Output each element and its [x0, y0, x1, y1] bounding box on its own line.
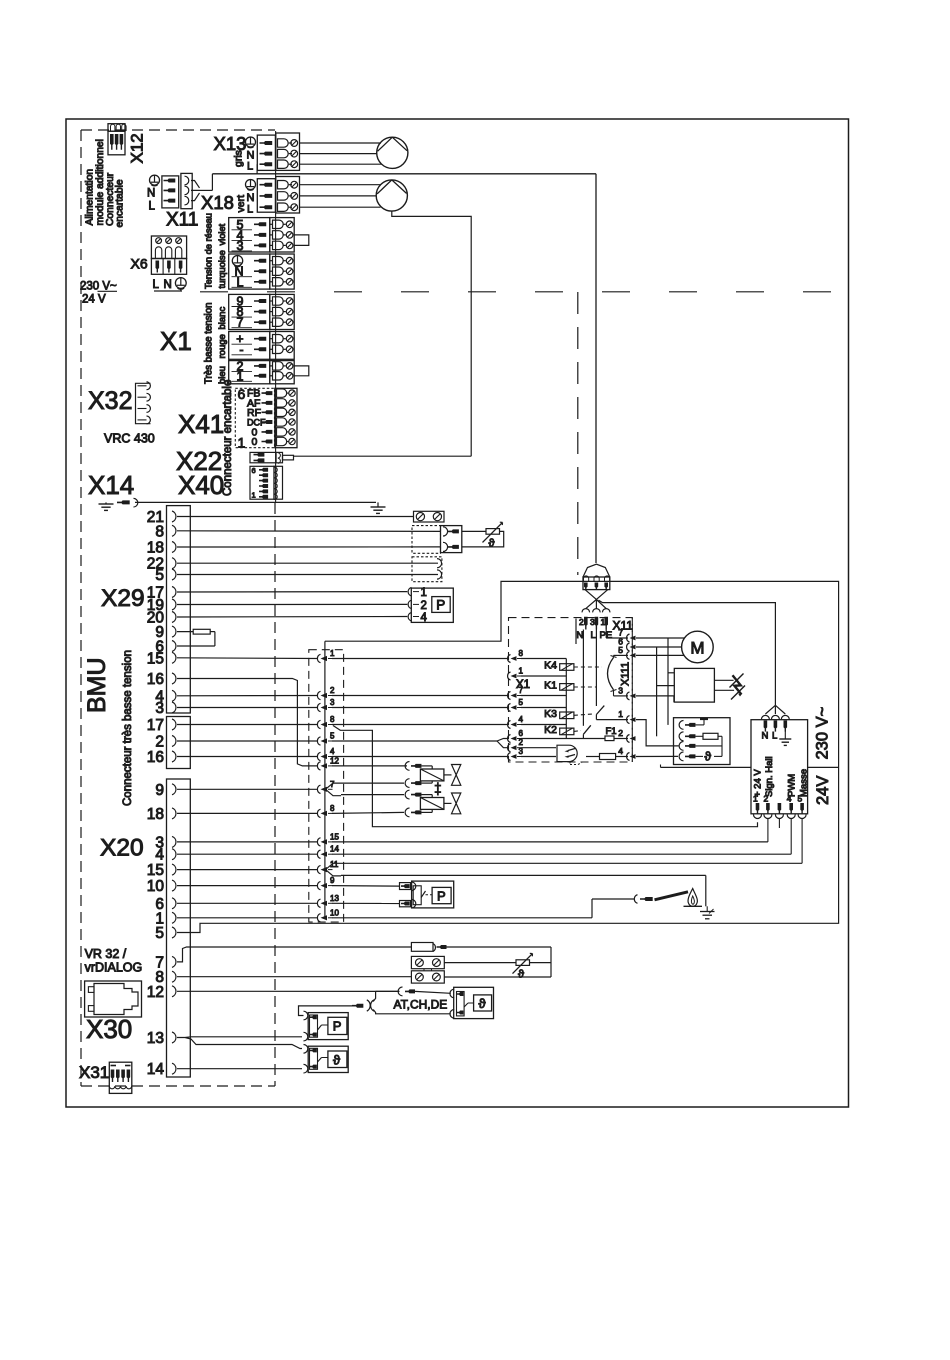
svg-text:ϑ: ϑ [518, 969, 524, 981]
connector X13 blades [257, 135, 275, 170]
svg-text:turquoise: turquoise [217, 250, 227, 288]
svg-text:4: 4 [421, 612, 428, 624]
X18 earth symbol [246, 180, 256, 190]
svg-text:8: 8 [330, 804, 335, 813]
wire X111-7 to fan [636, 637, 685, 639]
mech link K3 [574, 714, 593, 715]
wire L to X111 pin1 [596, 719, 628, 721]
X1 strip centerline [275, 131, 277, 503]
wire X20-9 [177, 788, 318, 790]
svg-text:X11: X11 [613, 619, 634, 633]
svg-text:4: 4 [330, 747, 335, 756]
wire X29-8 [177, 530, 441, 533]
svg-text:17: 17 [147, 717, 164, 734]
svg-text:1: 1 [618, 709, 623, 719]
svg-text:12: 12 [330, 756, 339, 765]
wire X20-10 [177, 885, 318, 887]
wire X20-14 [177, 1068, 302, 1070]
svg-text:Alimentation: Alimentation [85, 169, 96, 226]
thermistor flow [444, 962, 516, 964]
svg-text:L: L [153, 279, 160, 291]
svg-text:6: 6 [252, 466, 256, 475]
svg-text:blanc: blanc [217, 307, 228, 330]
wire P3 top loop [299, 1006, 353, 1016]
riser to igniter lower [656, 647, 658, 736]
plug into splitter [352, 1004, 363, 1008]
wire X20-18 [177, 812, 318, 814]
connector X41 [235, 388, 274, 447]
harness connector spine [324, 641, 326, 918]
boiler harness connector dashed box [309, 650, 344, 922]
svg-text:1: 1 [601, 617, 606, 627]
svg-text:2: 2 [330, 686, 335, 695]
svg-text:L: L [247, 161, 253, 173]
svg-text:2: 2 [421, 600, 427, 612]
sensor theta [696, 755, 704, 757]
svg-text:1: 1 [519, 667, 524, 676]
wire X20-15 [177, 869, 318, 871]
wire X20-13 split [177, 1037, 302, 1049]
harness connector pins [321, 656, 328, 661]
mech link K1 [574, 686, 597, 688]
svg-text:K2: K2 [544, 724, 557, 736]
diagram outer border frame [66, 119, 849, 1107]
wire X29-17 [177, 591, 407, 593]
svg-text:P: P [436, 598, 445, 613]
wire X20-8 [177, 976, 411, 978]
pump 1 [377, 137, 408, 168]
ignition transformer box [674, 668, 714, 702]
wire X111-4 to sensor [636, 755, 678, 757]
pump 2 [376, 180, 407, 211]
svg-text:Tension de réseau: Tension de réseau [204, 213, 214, 289]
svg-text:gris: gris [233, 150, 245, 167]
screw block upper [411, 956, 444, 968]
svg-text:X20: X20 [100, 835, 144, 862]
spark bolt [733, 675, 742, 694]
svg-text:1: 1 [753, 794, 758, 804]
connector X22 [250, 452, 276, 462]
svg-text:VRC 430: VRC 430 [104, 432, 155, 446]
svg-text:15: 15 [330, 832, 339, 841]
relay K1 [560, 684, 574, 691]
connector X18 blades [257, 179, 275, 213]
splitter branches [373, 991, 375, 1001]
wire PWM [790, 819, 792, 855]
svg-text:K1: K1 [544, 680, 557, 692]
jumper link terminals 4-3 [294, 235, 309, 246]
sensor internal resistor [696, 735, 704, 737]
wire X20-7 jog [177, 947, 411, 962]
relay coil bus [565, 659, 567, 739]
wire X29-19 [177, 603, 407, 605]
svg-text:14: 14 [147, 1061, 165, 1078]
wire X111 pin5 to contact [614, 654, 629, 656]
wire X20-5 loop [177, 581, 839, 932]
svg-text:violet: violet [217, 223, 227, 245]
connector X12 [108, 124, 125, 132]
connector X31 [109, 1062, 132, 1093]
flame base [684, 905, 703, 907]
svg-text:16: 16 [147, 749, 164, 766]
water pressure sensor P2 [412, 881, 454, 908]
chevron splitter pin11 [326, 863, 342, 876]
screw block lower [411, 971, 444, 983]
svg-text:X18: X18 [201, 192, 234, 213]
svg-text:+: + [435, 787, 442, 799]
fan motor M [682, 631, 714, 663]
flame earth [700, 911, 715, 913]
svg-text:4: 4 [618, 746, 623, 756]
X13 earth symbol [246, 137, 256, 147]
svg-text:2: 2 [579, 617, 584, 627]
wire X29-17b [177, 724, 318, 726]
wire X29-16b [177, 756, 318, 758]
wire PE to X111 pin7 [605, 630, 607, 639]
sensor block contacts [679, 721, 683, 730]
wire pin3 to relaybox [332, 707, 509, 709]
jumper link terminals 2-1 [294, 366, 309, 376]
24V interface box [751, 720, 808, 814]
230V plug V-split [765, 705, 785, 714]
wire Masse branch [801, 819, 803, 864]
svg-text:1: 1 [330, 649, 335, 658]
contact K3 [596, 706, 604, 715]
temperature sensor block [304, 1045, 308, 1054]
terminal block X1 rows 2-1 [229, 361, 270, 384]
connector X111 pins [627, 634, 630, 642]
svg-text:X41: X41 [178, 409, 224, 439]
chevron splitter pin7 [326, 783, 342, 796]
svg-text:8: 8 [330, 715, 335, 724]
X111 dashed spine [631, 618, 633, 762]
wire X29-16 jog to pin12 [177, 679, 318, 766]
thermistor loop return [444, 976, 551, 978]
svg-text:2: 2 [519, 738, 524, 747]
ignition electrode leads [714, 679, 733, 681]
X11 merge wire to rail [191, 181, 200, 201]
svg-text:8: 8 [155, 523, 164, 540]
svg-text:X6: X6 [131, 256, 148, 272]
wire X20-1 [177, 917, 318, 919]
wire X111-3 to igniter [636, 695, 674, 697]
wire pin13 to P2 [332, 902, 400, 904]
choke filter plug [583, 564, 610, 577]
wire pin7a to valve1 [341, 782, 404, 784]
svg-text:2: 2 [764, 794, 769, 804]
svg-text:F1: F1 [606, 726, 617, 737]
svg-text:X1: X1 [516, 679, 530, 691]
spark gap electrodes [730, 674, 744, 688]
svg-text:M: M [690, 639, 704, 658]
wire sensor to 24V box [661, 766, 752, 768]
svg-text:X29: X29 [101, 585, 145, 612]
wire pump2 to X22 [392, 211, 471, 456]
ground right of X14 wire [377, 502, 379, 507]
svg-text:1: 1 [252, 491, 256, 500]
relay box input pins [508, 655, 511, 663]
coding resistor X29 9-6 [177, 631, 193, 633]
wire pin8 branch +24V [333, 726, 758, 827]
relay K3 [560, 712, 574, 719]
resistor after opto [586, 756, 600, 758]
svg-text:ϑ: ϑ [705, 750, 712, 764]
svg-text:4: 4 [787, 794, 792, 804]
wire X20-3 [177, 841, 318, 843]
svg-text:X12: X12 [128, 133, 147, 163]
external sensor block [454, 987, 494, 1018]
Masse link to loop [808, 766, 839, 768]
terminal block X1 rows 9-8-7 [229, 294, 270, 329]
svg-text:X1: X1 [160, 326, 192, 356]
wires pins to coil bus [521, 658, 566, 660]
svg-text:13: 13 [147, 1030, 164, 1047]
svg-text:ϑ: ϑ [489, 538, 495, 550]
wire L from X11 plug [595, 630, 597, 707]
mech link K4 [574, 666, 602, 668]
gas valve coil 2 [405, 790, 409, 799]
svg-text:1: 1 [238, 435, 246, 451]
sensor block box [674, 718, 731, 765]
svg-text:P: P [333, 1019, 342, 1034]
wire X20-4 [177, 853, 318, 855]
water pressure sensor P1 [411, 588, 453, 622]
svg-text:5: 5 [330, 732, 335, 741]
wire rail down to choke [595, 174, 597, 563]
wire choke to 230V plug [599, 600, 776, 705]
electrode plug [634, 895, 637, 904]
wire X29-5 [177, 574, 438, 576]
stray contact mark [575, 619, 577, 645]
svg-text:5: 5 [519, 698, 524, 707]
svg-text:K3: K3 [544, 708, 557, 720]
fuse F1 [521, 738, 605, 740]
flame [688, 889, 697, 907]
svg-text:2: 2 [155, 734, 164, 751]
svg-text:ϑ: ϑ [333, 1053, 341, 1068]
mech link K2 [574, 730, 581, 733]
terminal block X1 rows 5-4-3 [229, 218, 270, 252]
svg-text:5: 5 [155, 925, 164, 942]
svg-text:X14: X14 [88, 470, 134, 500]
svg-text:24V: 24V [814, 776, 832, 805]
wire N from X11 plug [582, 630, 584, 726]
connector X18 sockets [276, 177, 300, 214]
svg-text:5: 5 [798, 794, 803, 804]
connector block X29 8/18 [412, 526, 441, 554]
wire X13 L feed [256, 164, 258, 174]
wire7 cont [447, 946, 552, 948]
wire 230V rail [212, 173, 596, 175]
wire12 arc plug [398, 987, 402, 996]
svg-text:3: 3 [155, 700, 164, 717]
svg-text:L: L [772, 731, 777, 742]
wire X111-1 to sensor [636, 720, 679, 746]
svg-text:encartable: encartable [115, 179, 126, 227]
fan speed contact arc [608, 658, 614, 690]
svg-text:ϑ: ϑ [479, 996, 487, 1011]
sensor row3 wire [696, 745, 723, 747]
svg-text:vert: vert [235, 195, 247, 213]
wire pin10 to electrode [332, 917, 592, 919]
svg-text:L: L [149, 201, 156, 213]
svg-text:8: 8 [519, 649, 524, 658]
24V bottom pins [756, 803, 760, 814]
contact K2 [583, 725, 590, 734]
wire pin1 to relaybox [332, 658, 509, 660]
wire X111-5 to fan [636, 654, 685, 656]
svg-text:VR 32 /: VR 32 / [85, 947, 127, 961]
connector X11 [150, 175, 160, 185]
connector X41 sockets [275, 388, 297, 447]
svg-text:vrDIALOG: vrDIALOG [85, 961, 143, 975]
connector block X29 22/5 [412, 557, 442, 582]
svg-text:13: 13 [330, 894, 339, 903]
water pressure sensor P3 [304, 1011, 308, 1020]
wire X29-21 [177, 516, 414, 518]
terminal block X1 rows +/- [229, 332, 270, 360]
wire X20-12 [177, 990, 400, 992]
terminal block on X29-21 [414, 511, 445, 522]
svg-text:N: N [247, 192, 255, 204]
wire X29-22 [177, 562, 438, 564]
wire pin8 to relaybox [332, 724, 509, 726]
wire X29-2 [177, 740, 318, 742]
electrode rod [655, 892, 689, 900]
wire X29-18 [177, 546, 441, 548]
svg-text:5: 5 [618, 645, 623, 655]
svg-text:X31: X31 [79, 1063, 109, 1082]
wire pin2 to relaybox [332, 695, 509, 697]
connector X6 [151, 236, 186, 259]
wire pin7b to valve2 [341, 794, 404, 796]
svg-text:N: N [577, 630, 584, 641]
svg-text:12: 12 [147, 984, 164, 1001]
svg-text:X40: X40 [178, 470, 224, 500]
svg-text:10: 10 [147, 878, 165, 895]
wire sock3 stub [778, 819, 780, 829]
terminal block X1 rows earth-N-L [229, 254, 270, 289]
svg-text:Très basse tension: Très basse tension [204, 303, 215, 385]
wire pin12 to gas valve 1 [332, 765, 407, 767]
connector X40 [250, 466, 274, 499]
relay K2 [560, 728, 574, 735]
sensor internal ground [696, 724, 705, 726]
wire pin5 split to relaybox [332, 740, 497, 742]
strip box X20 [167, 779, 191, 1077]
wire SignHall [767, 819, 769, 842]
riser to igniter upper [667, 638, 669, 725]
X1 earth row symbol [232, 256, 242, 266]
svg-text:1: 1 [421, 587, 427, 599]
mains/low-voltage long-dash separator [200, 291, 846, 293]
svg-text:18: 18 [147, 540, 164, 557]
plug on wire7 [411, 943, 433, 952]
svg-text:N: N [164, 279, 172, 291]
svg-text:Connecteur très basse tension: Connecteur très basse tension [122, 650, 134, 806]
svg-text:X30: X30 [86, 1014, 132, 1044]
svg-text:24 V: 24 V [82, 294, 106, 306]
svg-text:6: 6 [238, 386, 246, 402]
wire flame earth branch [341, 874, 706, 876]
strip box X29 lower [167, 717, 191, 769]
svg-text:N: N [762, 731, 769, 742]
230V plug pins [761, 715, 789, 719]
wires X18 to pump [300, 184, 381, 186]
svg-text:X32: X32 [88, 387, 132, 415]
wire X111-6 to fan [636, 646, 681, 648]
flame monitor opto [521, 747, 556, 749]
splitter X [367, 1000, 374, 1011]
svg-text:10: 10 [330, 908, 339, 917]
earth in 24V box [784, 732, 786, 740]
wire X22 to pump2 drop [294, 455, 472, 457]
svg-text:3: 3 [519, 747, 524, 756]
svg-text:3: 3 [590, 617, 595, 627]
svg-text:15: 15 [147, 862, 164, 879]
svg-text:4: 4 [519, 715, 524, 724]
wire X29-3 [177, 707, 318, 709]
svg-text:L: L [591, 630, 596, 641]
svg-text:14: 14 [330, 845, 339, 854]
svg-text:15: 15 [147, 650, 164, 667]
wire X29-15 [177, 657, 318, 660]
wire X29-20 [177, 616, 407, 619]
svg-text:9: 9 [155, 782, 164, 799]
svg-text:230 V~: 230 V~ [814, 707, 832, 760]
gas valve coil 1 [405, 762, 409, 771]
svg-text:0: 0 [252, 436, 258, 448]
svg-text:6: 6 [519, 729, 524, 738]
svg-text:rouge: rouge [217, 334, 228, 358]
connector X30 [85, 981, 142, 1017]
svg-text:L: L [247, 204, 253, 216]
svg-text:X111: X111 [620, 662, 632, 686]
relay box dashed boundary [509, 618, 633, 762]
svg-text:P: P [437, 889, 446, 904]
wire pin4 to relaybox [332, 756, 509, 758]
svg-text:2: 2 [618, 728, 623, 738]
wire X29-4 [177, 695, 318, 697]
choke V joints [585, 590, 608, 600]
BMU dashed boundary box [81, 129, 275, 131]
svg-text:16: 16 [147, 671, 164, 688]
svg-text:9: 9 [330, 876, 335, 885]
svg-text:5: 5 [155, 567, 164, 584]
wire pin8b to valve2 [332, 812, 404, 813]
X11 mains plug pins [586, 600, 606, 609]
svg-text:BMU: BMU [83, 657, 111, 713]
svg-text:18: 18 [147, 806, 164, 823]
wire X111 pin3 to contact [614, 695, 629, 697]
wire pin9 to P2 [332, 885, 400, 888]
connector X13 sockets [276, 133, 300, 170]
X14 ground lead [99, 503, 114, 505]
dashed net boundary at x578 [577, 292, 579, 575]
relay K4 [560, 664, 574, 671]
wire X20-6 [177, 902, 318, 904]
wires X13 to pump [300, 142, 382, 144]
thermistor DHW [462, 530, 486, 532]
svg-text:Sign. Hall: Sign. Hall [764, 756, 775, 797]
svg-text:3: 3 [330, 698, 335, 707]
svg-text:N: N [147, 188, 155, 200]
svg-text:K4: K4 [544, 660, 557, 672]
connector X32 [136, 383, 151, 423]
svg-text:X11: X11 [166, 210, 198, 231]
svg-text:AT,CH,DE: AT,CH,DE [394, 998, 448, 1012]
strip box X29 upper [167, 506, 191, 713]
